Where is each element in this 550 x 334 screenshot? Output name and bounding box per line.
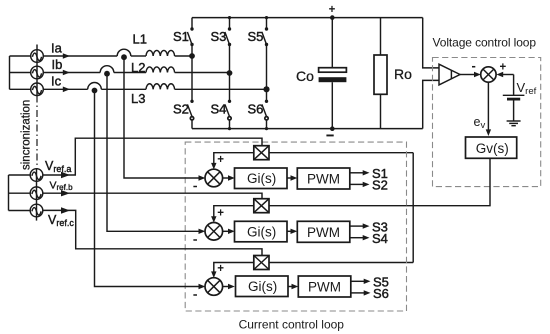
svg-text:L2: L2 <box>131 60 145 75</box>
wire Gv output down-left to multiplier 2 <box>270 158 491 206</box>
wire X1 to summer 1 <box>214 153 255 165</box>
svg-text:-: - <box>193 178 197 193</box>
svg-text:Co: Co <box>296 68 314 84</box>
PWM2 <box>297 221 350 242</box>
wire Gi1 to PWM1 <box>287 177 292 179</box>
summer 1 <box>205 169 223 187</box>
PWM3 <box>298 276 351 297</box>
svg-text:Gi(s): Gi(s) <box>248 279 277 294</box>
svg-text:-: - <box>472 58 476 73</box>
wire phase a <box>43 55 117 57</box>
output S5 <box>351 280 365 282</box>
multiplier X1 <box>254 146 269 160</box>
svg-text:-: - <box>193 231 197 246</box>
arrow Ic <box>63 87 70 93</box>
wire Vref.b template to multiplier 2 <box>43 193 262 199</box>
wire Ic measurement <box>95 91 204 287</box>
svg-text:S1: S1 <box>173 29 189 44</box>
node phase c <box>263 86 269 92</box>
junction leg3 top rail <box>265 16 268 19</box>
neutral bus upper sources <box>10 56 32 89</box>
switch S2 <box>173 100 194 129</box>
svg-text:Ib: Ib <box>52 57 63 72</box>
svg-text:S3: S3 <box>211 29 227 44</box>
current sensor phase c <box>88 83 102 94</box>
inductor L2 <box>131 60 175 75</box>
svg-text:Gv(s): Gv(s) <box>476 141 509 156</box>
wire Gi2 to PWM2 <box>287 230 292 232</box>
switch S4 <box>211 100 232 129</box>
arrow Ia <box>63 53 70 59</box>
inductor L1 <box>133 32 175 57</box>
arrow Vref.c <box>61 207 70 213</box>
wire Gi3 to PWM3 <box>288 286 293 288</box>
wire L3 to leg3 <box>175 88 267 90</box>
output S3 <box>350 225 364 227</box>
junction leg3 bottom rail <box>265 127 268 130</box>
svg-text:Ro: Ro <box>394 66 412 82</box>
svg-text:+: + <box>329 4 336 16</box>
AC source Va <box>31 45 44 96</box>
PWM1 <box>297 168 350 189</box>
wire Vref.c template to multiplier 3 <box>43 210 262 255</box>
op-amp sensor U1 <box>439 64 460 85</box>
wire amp to summer <box>460 74 474 76</box>
ground <box>507 121 521 126</box>
wire DC- to amplifier <box>423 80 439 128</box>
output S1 <box>350 172 364 174</box>
controller Gi1 <box>235 168 288 189</box>
capacitor Co <box>296 18 346 129</box>
wire multiplier bus vertical <box>412 153 414 263</box>
arrow into summer2 <box>199 229 206 234</box>
wire summer1 to Gi1 <box>222 177 228 179</box>
current sensor phase b <box>100 66 114 77</box>
current loop dashed box <box>185 142 406 311</box>
controller Gv(s) <box>466 137 517 158</box>
svg-text:-: - <box>193 287 197 302</box>
svg-text:S2: S2 <box>173 102 189 117</box>
wire L1 to leg1 <box>175 55 192 57</box>
arrow Vref.a <box>61 172 70 178</box>
AC source Vref.c <box>30 204 43 217</box>
arrow Ib <box>63 70 70 76</box>
svg-text:S6: S6 <box>248 102 264 117</box>
AC source Vref.a <box>30 169 43 221</box>
wire summer to Gv <box>487 82 489 130</box>
controller Gi3 <box>236 276 289 297</box>
summer 2 <box>205 223 223 241</box>
svg-text:+: + <box>217 208 224 220</box>
svg-text:S4: S4 <box>372 231 388 246</box>
svg-text:L1: L1 <box>133 32 147 47</box>
svg-text:Ia: Ia <box>51 41 63 56</box>
switch S6 <box>248 100 269 129</box>
svg-text:PWM: PWM <box>308 280 341 295</box>
output S4 <box>350 237 364 239</box>
wire summer2 to Gi2 <box>222 230 228 232</box>
current sensor phase a <box>117 49 131 60</box>
inductor L3 <box>131 84 175 106</box>
arrow into summer1 <box>199 175 206 180</box>
node phase a <box>189 53 195 59</box>
output S2 <box>350 183 364 185</box>
svg-text:Voltage control loop: Voltage control loop <box>433 36 537 50</box>
svg-text:Ic: Ic <box>51 74 62 89</box>
node - <box>330 126 335 131</box>
multiplier X3 <box>254 256 269 270</box>
svg-text:S6: S6 <box>373 286 389 301</box>
junction leg2 top rail <box>228 16 231 19</box>
svg-text:S5: S5 <box>248 29 264 44</box>
svg-text:L3: L3 <box>131 91 145 106</box>
wire Ia measurement <box>124 57 204 178</box>
arrow into summer3 <box>199 284 206 289</box>
node phase b <box>227 70 233 76</box>
wire Ib measurement <box>107 74 204 232</box>
wire X2 to summer 2 <box>214 206 255 218</box>
junction leg2 bottom rail <box>228 127 231 130</box>
wire L2 to leg2 <box>175 72 230 74</box>
wire DC+ to amplifier <box>423 18 439 68</box>
output S6 <box>351 292 365 294</box>
wire Vref to summer <box>503 74 514 76</box>
arrow Vref.b <box>61 190 70 196</box>
summer voltage loop <box>472 58 507 82</box>
AC source Vb <box>31 66 44 79</box>
svg-text:sincronization: sincronization <box>21 100 33 170</box>
controller Gi2 <box>235 221 288 242</box>
wire phase b <box>43 72 100 74</box>
switch S3 <box>211 18 232 102</box>
top DC rail <box>192 17 423 19</box>
switch S1 <box>173 18 194 102</box>
svg-text:Gi(s): Gi(s) <box>247 171 276 186</box>
summer 3 <box>205 278 223 296</box>
wire summer3 to Gi3 <box>222 286 228 288</box>
wire X3 to summer 3 <box>214 263 255 274</box>
svg-text:S2: S2 <box>372 178 388 193</box>
AC source Vref.b <box>30 187 43 200</box>
wire multiplier 3 branch <box>270 262 414 264</box>
svg-text:PWM: PWM <box>307 225 340 240</box>
switch S5 <box>248 18 269 102</box>
multiplier X2 <box>254 199 269 213</box>
bottom DC rail <box>192 128 423 130</box>
battery Vref <box>503 75 537 122</box>
AC source Vc <box>31 83 44 96</box>
svg-text:Current control loop: Current control loop <box>239 318 345 332</box>
svg-text:PWM: PWM <box>307 172 340 187</box>
svg-text:+: + <box>217 154 224 166</box>
svg-text:S4: S4 <box>211 102 227 117</box>
node + <box>330 15 335 20</box>
wire phase c <box>43 88 87 90</box>
sincronization dash-dot link <box>36 96 38 169</box>
wire Vref.a template to multiplier 1 <box>43 138 262 175</box>
svg-text:+: + <box>217 263 224 275</box>
wire multiplier 1 branch <box>270 152 414 154</box>
voltage loop dashed box <box>433 58 541 187</box>
resistor Ro <box>374 18 412 129</box>
svg-text:+: + <box>500 62 507 74</box>
neutral bus lower sources <box>9 175 31 211</box>
svg-text:Gi(s): Gi(s) <box>247 224 276 239</box>
